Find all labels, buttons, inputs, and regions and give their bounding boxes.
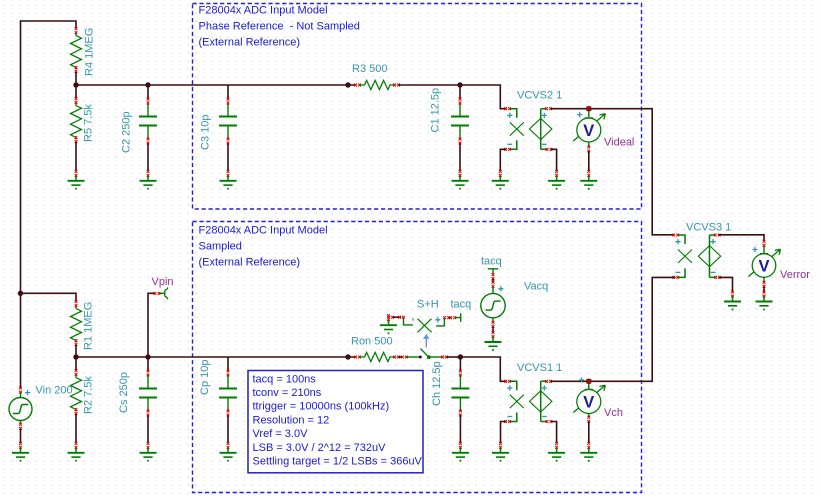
- label R3 500: [352, 63, 387, 75]
- voltmeter Vch: [573, 377, 605, 413]
- resistor R4: [71, 27, 82, 73]
- capacitor Ch: [451, 357, 469, 462]
- annotation box: ADC timing parameters: [248, 371, 423, 473]
- ground (Vacq): [485, 331, 502, 351]
- ground (VCVS1 output -): [548, 442, 565, 462]
- svg-text:C2 250p: C2 250p: [121, 111, 133, 153]
- node: C2 tap: [145, 82, 150, 87]
- wire: VCVS2 output - to ground: [551, 149, 557, 170]
- svg-text:Vpin: Vpin: [152, 276, 174, 288]
- wire: Verror meter to ground: [763, 277, 766, 293]
- wire: Ron to switch: [399, 356, 403, 358]
- wire: switch to Ch node: [447, 356, 461, 358]
- node: Ch tap / switch output: [458, 354, 463, 359]
- wire: Ch node to VCVS1 + input: [460, 357, 506, 381]
- label tacq (switch control): [451, 298, 472, 310]
- label R4 1MEG: [84, 28, 96, 76]
- wire: R2 to ground: [75, 414, 77, 442]
- voltmeter Verror pin ticks: [760, 240, 768, 254]
- node: top bus at R4/R5: [73, 82, 78, 87]
- svg-text:LSB = 3.0V / 2^12 = 732uV: LSB = 3.0V / 2^12 = 732uV: [253, 442, 387, 454]
- wire: bottom bus (R1 node to Ron): [76, 356, 356, 358]
- node: Vch output node: [586, 379, 591, 384]
- ground (VCVS2 output -): [548, 170, 565, 190]
- wire: VCVS2 output to Videal node and down to VCVS3 + input: [551, 109, 675, 235]
- ground (Vin): [12, 442, 29, 462]
- voltage source Vin: [9, 387, 32, 443]
- pin Vpin: [154, 287, 168, 299]
- svg-text:Verror: Verror: [780, 269, 810, 281]
- svg-text:Vin 200: Vin 200: [36, 385, 73, 397]
- controlled source VCVS2 output (diamond): [530, 107, 553, 151]
- controlled source VCVS1 input port (X): [504, 380, 524, 423]
- svg-text:Resolution = 12: Resolution = 12: [253, 414, 330, 426]
- svg-text:R3 500: R3 500: [352, 63, 387, 75]
- label Verror: [780, 269, 810, 281]
- svg-text:tacq = 100ns: tacq = 100ns: [253, 373, 317, 385]
- ground (VCVS1 input -): [492, 442, 509, 462]
- ground (Verror meter): [756, 291, 773, 311]
- svg-text:R5 7.5k: R5 7.5k: [83, 104, 95, 142]
- wire: Videal meter to ground: [587, 142, 590, 170]
- wire: Vch meter to ground: [587, 414, 590, 443]
- node: bottom bus at R1/R2: [73, 354, 78, 359]
- ground (VCVS2 input -): [492, 170, 509, 190]
- svg-text:R1 1MEG: R1 1MEG: [83, 302, 95, 350]
- svg-text:C1 12.5p: C1 12.5p: [430, 88, 442, 133]
- node: junction at (20.5,293): [18, 291, 23, 296]
- wire: node to R2: [75, 357, 77, 371]
- title text: F28004x ADC Input Model (bottom): [199, 225, 328, 269]
- label Vacq: [524, 281, 548, 293]
- svg-text:V: V: [583, 394, 594, 412]
- ground (switch control -): [380, 314, 397, 334]
- svg-text:V: V: [758, 258, 769, 276]
- label tacq (source): [481, 255, 502, 267]
- voltmeter Verror: [749, 247, 781, 277]
- wire: top-left loop from Vin up to R4: [21, 21, 77, 388]
- svg-text:VCVS2 1: VCVS2 1: [517, 90, 562, 102]
- capacitor Cp: [219, 357, 237, 462]
- wire: R1 to bottom bus: [75, 345, 77, 357]
- resistor Ron: [354, 352, 400, 361]
- controlled source VCVS1 output (diamond): [530, 380, 553, 423]
- label VCVS3 1: [686, 222, 731, 234]
- pin tacq (source top): [488, 269, 498, 280]
- resistor R1: [71, 300, 82, 346]
- wire: loop node to R1: [21, 293, 77, 301]
- wire: tacq pin to Vacq: [492, 279, 494, 283]
- wire: VCVS3 - input down to Vch node: [592, 277, 675, 381]
- node: C1 tap: [457, 82, 462, 87]
- op-amp/controlled-source VCVS2 input port (X): [504, 107, 524, 151]
- capacitor C3: [219, 85, 237, 190]
- title text: F28004x ADC Input Model (top): [199, 5, 360, 49]
- svg-text:tacq: tacq: [481, 255, 502, 267]
- svg-text:Cs 250p: Cs 250p: [118, 372, 130, 413]
- wire: VCVS3 output + to Verror meter: [718, 235, 764, 241]
- wire: top bus (node to R3 left pin): [76, 84, 356, 86]
- node: Cs tap: [145, 354, 150, 359]
- wire: R5 to ground: [75, 142, 77, 170]
- svg-text:Vacq: Vacq: [524, 281, 548, 293]
- svg-text:tacq: tacq: [451, 298, 472, 310]
- label Ch 12.5p: [431, 361, 443, 406]
- dashed box: Sampled ADC model: [193, 222, 642, 493]
- svg-text:S+H: S+H: [417, 298, 439, 310]
- wire: switch control - wire: [387, 316, 405, 319]
- controlled source VCVS3 input port (X): [672, 234, 692, 279]
- switch S+H control port (X): [404, 317, 445, 332]
- ground (Vch meter): [580, 442, 597, 462]
- label VCVS1 1: [517, 362, 562, 374]
- voltmeter Videal: [573, 112, 605, 142]
- ground (R5): [68, 170, 85, 190]
- label Videal: [604, 137, 634, 149]
- label Vin 200: [36, 385, 73, 397]
- svg-text:tconv = 210ns: tconv = 210ns: [253, 387, 322, 399]
- label Vpin: [152, 276, 174, 288]
- capacitor Cs: [139, 357, 157, 462]
- label R2 7.5k: [83, 376, 95, 414]
- svg-text:V: V: [583, 122, 594, 140]
- svg-text:R2 7.5k: R2 7.5k: [83, 376, 95, 414]
- label Ron 500: [351, 336, 393, 348]
- label R1 1MEG: [83, 302, 95, 350]
- svg-text:Sampled: Sampled: [199, 241, 242, 253]
- label S+H: [417, 298, 439, 310]
- resistor R3: [354, 80, 400, 89]
- label C1 12.5p: [430, 88, 442, 133]
- switch S+H control arrow: [423, 334, 429, 348]
- wire: VCVS2 - input to ground: [500, 149, 506, 170]
- ground (R2): [68, 442, 85, 462]
- svg-text:Phase Reference - Not Sampled: Phase Reference - Not Sampled: [199, 21, 360, 33]
- label Cp 10p: [199, 360, 211, 395]
- node: wire junction left of R3: [345, 82, 350, 87]
- svg-text:Settling target = 1/2 LSBs = 3: Settling target = 1/2 LSBs = 366uV: [253, 456, 423, 468]
- svg-text:VCVS3 1: VCVS3 1: [686, 222, 731, 234]
- svg-text:Vref = 3.0V: Vref = 3.0V: [253, 428, 309, 440]
- svg-text:(External Reference): (External Reference): [199, 37, 301, 49]
- svg-text:F28004x ADC Input Model: F28004x ADC Input Model: [199, 5, 328, 17]
- voltmeter Videal pin stub: [585, 111, 593, 118]
- switch S+H contacts: [401, 349, 448, 359]
- wire: switch control + to tacq pin: [443, 313, 461, 322]
- wire: R4 to top bus node: [75, 72, 77, 85]
- wire: R3 to C1 node and VCVS2 + input: [399, 85, 507, 109]
- label C2 250p: [121, 111, 133, 153]
- capacitor C2: [139, 85, 157, 190]
- svg-text:VCVS1 1: VCVS1 1: [517, 362, 562, 374]
- label Vch: [604, 407, 623, 419]
- resistor R5: [71, 97, 82, 143]
- wire: VCVS1 - input to ground: [501, 422, 507, 443]
- svg-text:(External Reference): (External Reference): [199, 257, 301, 269]
- controlled source VCVS3 output (diamond): [698, 234, 721, 279]
- ground (VCVS3 output -): [724, 291, 741, 311]
- dashed box: Phase Reference ADC model: [193, 4, 642, 210]
- wire: VCVS1 output + to Vch node: [551, 380, 593, 382]
- voltmeter Vch pin stub: [585, 384, 593, 390]
- node: Videal output node: [586, 106, 591, 111]
- wire: Vpin tap: [148, 293, 155, 357]
- label C3 10p: [200, 115, 212, 150]
- svg-text:C3 10p: C3 10p: [200, 115, 212, 150]
- svg-text:Vch: Vch: [604, 407, 623, 419]
- svg-text:Videal: Videal: [604, 137, 634, 149]
- node: wire junction left of Ron: [345, 354, 350, 359]
- label VCVS2 1: [517, 90, 562, 102]
- svg-text:Ch 12.5p: Ch 12.5p: [431, 361, 443, 406]
- resistor R2: [71, 369, 82, 415]
- svg-text:F28004x ADC Input Model: F28004x ADC Input Model: [199, 225, 328, 237]
- voltage source Vacq: [481, 281, 505, 333]
- wire: VCVS1 output - to ground: [551, 422, 557, 443]
- wire: VCVS3 output - to ground: [718, 277, 732, 291]
- svg-text:Cp 10p: Cp 10p: [199, 360, 211, 395]
- ground (Videal meter): [580, 170, 597, 190]
- svg-text:ttrigger = 10000ns (100kHz): ttrigger = 10000ns (100kHz): [253, 401, 390, 413]
- capacitor C1: [451, 85, 469, 190]
- wire: node to R5: [75, 85, 77, 99]
- label R5 7.5k: [83, 104, 95, 142]
- svg-text:Ron 500: Ron 500: [351, 336, 393, 348]
- label Cs 250p: [118, 372, 130, 413]
- svg-text:R4 1MEG: R4 1MEG: [84, 28, 96, 76]
